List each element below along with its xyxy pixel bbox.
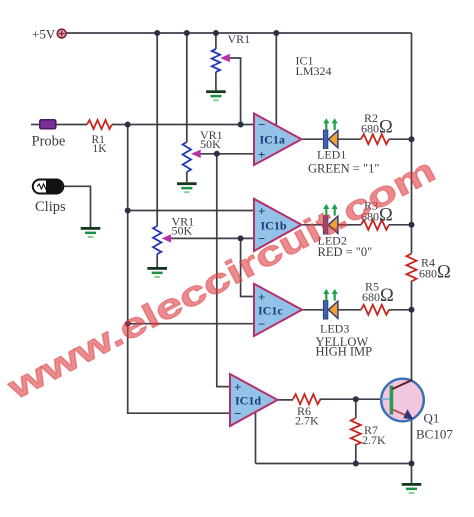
wire VR1 top wiper to node on IC1a- line [230, 58, 241, 125]
label R4 680 [419, 256, 451, 283]
wire Q1 emitter drop to ground rail [411, 418, 413, 464]
resistor R7 2.7K (vertical) [351, 418, 361, 445]
junction node R3 at right bus [409, 222, 415, 228]
svg-text:+: + [234, 379, 241, 394]
svg-text:VR1: VR1 [228, 32, 251, 46]
wire R3 to right bus [389, 224, 412, 226]
label R5 680 [362, 280, 394, 307]
ground (VR1 mid) [177, 182, 197, 193]
resistor R4 680 ohm (vertical in right bus) [407, 254, 417, 282]
wire right bus upper (rail to R4 top) [411, 33, 413, 254]
LED1 green indicator [323, 118, 338, 148]
potentiometer VR1 top wiper arrow [220, 54, 230, 62]
label Q1 BC107 [416, 411, 453, 442]
ground (clips) [81, 227, 101, 238]
wire LED1 to R2 [338, 138, 361, 140]
svg-text:2.7K: 2.7K [295, 414, 319, 428]
svg-text:GREEN = "1": GREEN = "1" [308, 162, 379, 176]
wire R7 top stub [355, 399, 357, 418]
svg-text:IC1d: IC1d [235, 394, 261, 408]
wire clips lead to ground [62, 186, 91, 227]
resistor R6 2.7K [293, 394, 320, 404]
label IC1a with input polarity [258, 117, 285, 162]
wire probe bus vertical to IC1d- [128, 125, 231, 414]
wire IC1a V+ power pin from rail [275, 33, 277, 127]
wire R6 to Q1 base [320, 398, 383, 400]
svg-text:+: + [258, 147, 265, 162]
wire IC1a output to LED1 [301, 138, 324, 140]
op-amp U1d IC1d [230, 374, 278, 426]
potentiometer VR1 low wiper arrow [162, 234, 172, 242]
label R2 680 [361, 111, 393, 138]
svg-text:LED1: LED1 [317, 148, 346, 162]
node +5V supply terminal [57, 29, 66, 38]
wire R5 to right bus [389, 309, 412, 311]
wire IC1d output to R6 [277, 399, 294, 401]
label R6 2.7K [295, 404, 319, 428]
wire right bus lower (R4 bottom to Q1 collector) [411, 281, 413, 382]
label LED2 RED [318, 234, 373, 260]
wire +5V top rail [67, 32, 412, 34]
wire bottom ground rail [256, 463, 412, 465]
label R1 1K [92, 134, 108, 155]
svg-text:−: − [258, 317, 265, 332]
svg-text:+5V: +5V [32, 27, 56, 42]
wire rail to VR1 top [215, 33, 217, 49]
junction node R6/R7/base [353, 396, 359, 402]
ground (VR1 top) [206, 90, 226, 101]
wire VR1 mid wiper to IC1a+ input [199, 153, 255, 155]
svg-text:HIGH IMP: HIGH IMP [316, 345, 373, 359]
svg-text:50K: 50K [200, 137, 221, 151]
svg-text:Clips: Clips [35, 199, 66, 215]
potentiometer VR1 low 50K (zigzag) [153, 226, 161, 254]
svg-text:+: + [258, 203, 265, 218]
op-amp U1b IC1b [254, 199, 302, 251]
op-amp U1a IC1a [254, 114, 302, 166]
LED2 red indicator [323, 204, 338, 234]
svg-text:1K: 1K [93, 143, 108, 155]
junction node R7 at ground rail [353, 461, 359, 467]
junction node VR1 mid wiper on IC1a+ line [214, 151, 220, 157]
resistor R3 680 ohm [361, 220, 389, 230]
LED3 yellow indicator [323, 289, 338, 319]
label VR1 50K (mid) [200, 128, 223, 151]
wire left vertical to VR1 mid [186, 33, 188, 142]
label R7 2.7K [362, 423, 386, 447]
label LED3 YELLOW HIGH IMP [316, 322, 373, 359]
wire VR1 low wiper to IC1b- input [168, 237, 255, 239]
resistor R2 680 ohm [361, 134, 389, 144]
potentiometer VR1 top (zigzag) [212, 49, 220, 72]
op-amp U1c IC1c [254, 284, 302, 336]
wire R7 bottom stub [355, 444, 357, 464]
label IC1c with input polarity [258, 289, 283, 331]
label LED1 GREEN [308, 148, 379, 176]
wire ground stem bottom [411, 464, 413, 484]
wire IC1b output to LED2 [301, 224, 324, 226]
wire IC1b- node down to IC1c+ input [241, 238, 255, 296]
wire VR1 mid to ground [186, 172, 188, 182]
junction node emitter at ground rail [409, 461, 415, 467]
wire LED3 to R5 [338, 309, 361, 311]
wire VR1 top to ground [215, 72, 217, 90]
svg-text:2.7K: 2.7K [362, 433, 386, 447]
wire left vertical to VR1 low [156, 33, 158, 226]
label IC1 LM324 [296, 54, 332, 79]
wire VR1 mid node vertical bus to IC1d+ [217, 154, 231, 387]
potentiometer VR1 mid 50K (zigzag) [183, 142, 191, 172]
junction node IC1b- line [238, 235, 244, 241]
junction node R2 at right bus [409, 136, 415, 142]
clips terminal [33, 180, 64, 194]
wire VR1 low to ground [156, 254, 158, 267]
svg-text:IC1a: IC1a [260, 133, 285, 147]
wire R1 to IC1a inverting input [112, 124, 255, 126]
junction node VR1 top wiper on IC1a- line [238, 122, 244, 128]
ground (VR1 low) [147, 267, 167, 278]
svg-text:−: − [258, 117, 265, 132]
wire probe bus to IC1b+ input [128, 210, 255, 212]
potentiometer VR1 mid wiper arrow [191, 150, 201, 158]
label IC1b with input polarity [258, 203, 287, 246]
svg-text:Q1: Q1 [424, 411, 440, 426]
junction node probe bus at IC1c- [125, 321, 131, 327]
junction dots on +5V rail [154, 30, 279, 36]
wire LED2 to R3 [338, 224, 361, 226]
svg-text:LM324: LM324 [296, 64, 332, 78]
svg-text:BC107: BC107 [416, 427, 453, 442]
wire IC1d V- power pin to ground rail [255, 411, 257, 464]
junction node probe/R1 [125, 122, 131, 128]
svg-text:50K: 50K [172, 224, 193, 238]
wire IC1c output to LED3 [302, 309, 324, 311]
label VR1 50K (low) [172, 215, 195, 238]
svg-text:−: − [234, 406, 241, 421]
label IC1d with input polarity [234, 379, 261, 421]
transistor Q1 BC107 [381, 379, 424, 422]
wire probe bus to IC1c- input [128, 323, 255, 325]
svg-text:+: + [258, 289, 265, 304]
svg-text:RED = "0": RED = "0" [318, 245, 373, 259]
svg-text:IC1c: IC1c [258, 304, 283, 318]
resistor R5 680 ohm [361, 305, 389, 315]
svg-text:LED3: LED3 [320, 322, 349, 336]
wire probe to R1 [56, 124, 88, 126]
wire R2 to right bus [389, 138, 412, 140]
junction node probe bus at IC1b+ [125, 208, 131, 214]
resistor R1 1K [87, 120, 112, 129]
probe terminal [40, 120, 56, 129]
label R3 680 [361, 199, 393, 226]
wire probe stub [31, 124, 41, 126]
junction node R5 at right bus [409, 307, 415, 313]
svg-text:Probe: Probe [32, 134, 66, 150]
ground (bottom rail) [402, 483, 422, 494]
